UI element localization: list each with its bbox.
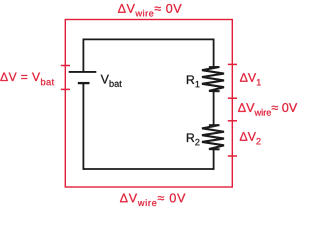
wire bottom side of circuit bbox=[83, 168, 213, 170]
wire right side middle (R1 to R2) bbox=[213, 91, 215, 125]
wire right side upper (to R1) bbox=[213, 39, 215, 68]
tick on right red line (above R1) bbox=[228, 63, 237, 65]
right label delta-V2 bbox=[240, 132, 261, 144]
tick on left red line (battery top) bbox=[61, 65, 70, 67]
right label delta-V wire approx 0V bbox=[238, 103, 297, 116]
wire left side lower (from battery - plate) bbox=[82, 83, 84, 170]
left label delta-V = Vbat bbox=[0, 73, 54, 86]
battery B1 short (-) plate bbox=[78, 82, 90, 84]
right label delta-V1 bbox=[240, 73, 261, 85]
tick on left red line (battery bottom) bbox=[61, 88, 70, 90]
wire right side lower (from R2) bbox=[213, 149, 215, 170]
top label delta-V wire approx 0V bbox=[118, 4, 182, 17]
resistor R2 zigzag bbox=[202, 125, 224, 149]
tick on right red line (below R2) bbox=[228, 155, 237, 157]
bottom label delta-V wire approx 0V bbox=[120, 194, 185, 207]
resistor R2 label bbox=[187, 134, 200, 146]
resistor R1 label bbox=[187, 76, 200, 88]
tick on right red line (above R2) bbox=[228, 120, 237, 122]
wire top side of circuit bbox=[83, 38, 213, 40]
wire left side upper (to battery + plate) bbox=[82, 39, 84, 72]
tick on right red line (below R1) bbox=[228, 97, 237, 99]
battery B1 long (+) plate bbox=[69, 71, 97, 73]
battery value label Vbat bbox=[101, 75, 122, 87]
resistor R1 zigzag bbox=[202, 67, 224, 91]
red measurement loop rectangle bbox=[65, 20, 232, 188]
